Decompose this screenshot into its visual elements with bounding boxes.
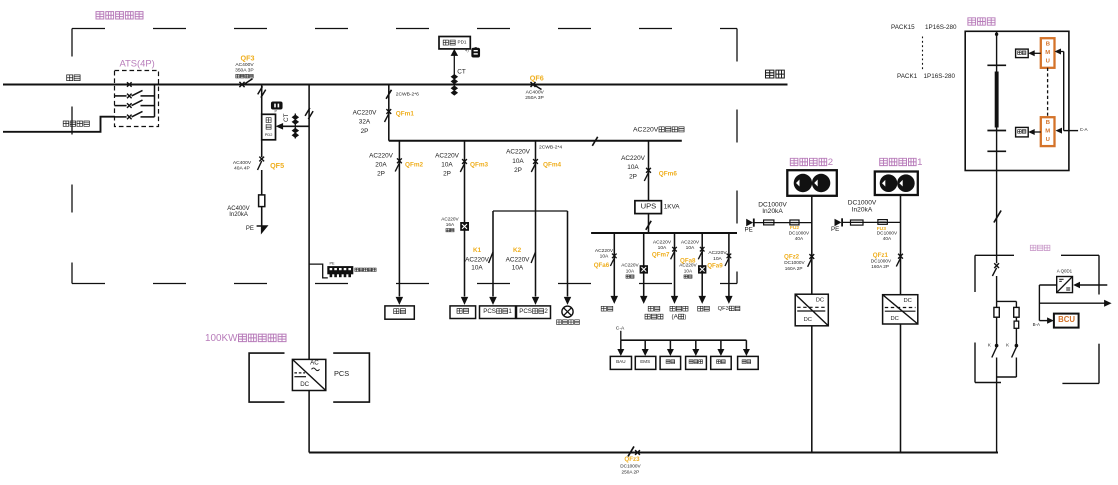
PCS enclosure bracket left (249, 353, 284, 402)
svg-text:10A: 10A (512, 158, 524, 165)
svg-text:QFm6: QFm6 (659, 170, 678, 177)
HV box dashed enclosure (975, 255, 1099, 383)
svg-text:PD2: PD2 (265, 132, 273, 137)
svg-text:AC220V: AC220V (633, 126, 659, 133)
meter PD2 box (262, 114, 276, 140)
HV fuse left (994, 301, 999, 344)
svg-text:10A: 10A (441, 162, 453, 169)
svg-text:BAU: BAU (616, 359, 625, 364)
PCS fan 2 box (517, 306, 551, 319)
svg-text:2CWB-2*6: 2CWB-2*6 (396, 91, 419, 97)
label QFm1 (396, 111, 415, 118)
ATS contact row 2 (115, 90, 155, 98)
wire DC bus bottom (309, 451, 998, 453)
wire UPS load5 QF3 motor (725, 233, 733, 304)
title 100KW PCS (chuneng bianliuqi) (205, 333, 286, 344)
svg-text:B: B (1046, 120, 1050, 126)
wire branch QFm2 (398, 141, 400, 297)
arrow into PCS fan1 (489, 297, 497, 305)
label load1 (594, 248, 614, 311)
svg-text:AC220V: AC220V (353, 110, 378, 117)
label city power (shidian) (67, 75, 80, 81)
fan box 2 (fengshan) (1016, 127, 1029, 136)
wire HV split header (997, 300, 1017, 302)
arrows C-A tree (617, 340, 750, 356)
cable mark slash battery (994, 211, 1001, 223)
svg-text:AC220V: AC220V (681, 239, 700, 245)
svg-text:2: 2 (544, 308, 548, 315)
socket on load2 (640, 266, 647, 273)
svg-text:DC1000V: DC1000V (784, 260, 805, 265)
svg-text:2P: 2P (443, 171, 451, 178)
label 1KVA (664, 203, 681, 210)
svg-text:PE: PE (330, 261, 336, 265)
wire comm out arrow right (1039, 300, 1111, 307)
svg-text:(A: (A (672, 314, 679, 321)
svg-text:C-A: C-A (1080, 127, 1089, 132)
wire main 400V bus to load (3, 83, 788, 85)
svg-text:K1: K1 (473, 247, 482, 254)
breaker QFm4 (531, 159, 538, 172)
fan box 1 (fengshan) (1016, 49, 1029, 58)
label QFm4 ratings (506, 149, 531, 174)
svg-text:U: U (1046, 137, 1050, 143)
svg-text:2P: 2P (514, 167, 522, 174)
svg-text:AC220V: AC220V (679, 263, 697, 268)
wire UPS output bus (591, 232, 737, 234)
svg-text:1: 1 (508, 308, 512, 315)
wire UPS load4 spare (698, 233, 706, 304)
wire CT to meter PD2 with arrow (276, 123, 310, 130)
svg-text:1: 1 (917, 157, 922, 168)
wire UPS load1 spare (610, 233, 618, 304)
label C-A battery (1080, 127, 1089, 132)
svg-text:K: K (988, 343, 991, 348)
svg-text:10A: 10A (512, 265, 524, 272)
BCU box (1054, 314, 1079, 328)
wire below meter PD2 (261, 140, 263, 157)
cable mark double slash on feeder (305, 108, 313, 119)
label C-A (616, 325, 625, 331)
cable mark slash on AC220V bus (592, 137, 597, 146)
ATS contact row 3 (115, 100, 155, 108)
BMU 1 box (1041, 38, 1055, 68)
wire CT to meter PD1 with arrow (451, 49, 459, 85)
wire branch QFm3 (464, 141, 466, 297)
dotted line between packs (922, 37, 924, 70)
svg-text:AC220V: AC220V (653, 239, 672, 245)
svg-text:40A: 40A (795, 236, 804, 241)
PV1 connector box (875, 172, 918, 196)
svg-text:10A: 10A (600, 254, 609, 260)
label PE (246, 226, 254, 232)
svg-text:10A: 10A (686, 245, 695, 251)
wire K1 drop (492, 211, 494, 297)
label K1 (465, 247, 490, 272)
title PV input 2 (guangfu jieru 2) (790, 157, 833, 168)
CT on main bus (451, 74, 459, 96)
arrow into PCS fan2 (532, 297, 539, 305)
meter PD1 side icon (465, 47, 479, 57)
svg-text:DC1000V: DC1000V (789, 230, 810, 235)
svg-text:PE: PE (831, 226, 839, 233)
svg-text:QFa6: QFa6 (594, 262, 610, 269)
svg-text:QF3: QF3 (241, 54, 255, 63)
svg-text:AC220V: AC220V (465, 257, 490, 264)
svg-text:AC220V: AC220V (621, 263, 639, 268)
svg-text:DC1000V: DC1000V (877, 231, 898, 236)
breaker QFm2 (395, 158, 402, 171)
svg-text:A Q0D1: A Q0D1 (1057, 269, 1073, 274)
svg-text:AC400V: AC400V (526, 89, 545, 95)
svg-text:2CWB-2*4: 2CWB-2*4 (539, 144, 562, 150)
breaker QF3 (239, 79, 252, 87)
svg-text:M: M (1045, 50, 1050, 56)
cable mark slash below UPS (646, 221, 651, 230)
label grounding terminal strip (355, 268, 376, 271)
transducer A/Q0D1 box (1057, 277, 1073, 293)
label QF5 ratings (233, 160, 252, 172)
switch K1 (489, 252, 493, 263)
svg-text:AC: AC (310, 360, 319, 367)
svg-text:): ) (684, 314, 686, 321)
switch QFz2 (808, 254, 815, 267)
label load4 (679, 239, 709, 311)
svg-text:K: K (1006, 343, 1009, 348)
breaker QF6 (531, 82, 542, 90)
meter icon small (272, 102, 283, 114)
svg-text:U: U (1046, 58, 1050, 64)
svg-text:In20kA: In20kA (229, 212, 248, 218)
svg-text:M: M (1045, 129, 1050, 135)
svg-text:QFm1: QFm1 (396, 111, 415, 118)
label QFm5 (659, 170, 678, 177)
HV fuse right (1014, 301, 1019, 344)
PCS fan 1 box (480, 306, 516, 319)
ATS output collector wire (154, 85, 156, 117)
grounding terminal strip (jiedi duanzipai) (328, 261, 353, 277)
svg-text:32A: 32A (359, 119, 371, 126)
battery cells symbol (987, 65, 1006, 151)
cabinet lamp (xiangnei zhaoming) (562, 306, 573, 317)
svg-text:AC220V: AC220V (441, 216, 459, 221)
arrow into lamp (564, 297, 571, 305)
label QFz3 (620, 456, 641, 475)
svg-text:EMS: EMS (640, 359, 650, 364)
svg-text:DC1000V: DC1000V (620, 463, 641, 468)
svg-text:QFa9: QFa9 (707, 263, 723, 270)
svg-text:10A: 10A (684, 268, 693, 273)
wire AC220V AC bus (389, 140, 682, 142)
battery string wire (995, 31, 998, 170)
svg-text:AC220V: AC220V (621, 155, 646, 162)
wire below UPS (648, 214, 650, 233)
label QFm5 ratings (621, 155, 646, 180)
wire lamp branch (567, 211, 569, 297)
label PV1 PE (831, 226, 839, 233)
svg-text:PCS: PCS (334, 369, 349, 378)
breaker QFm3 (460, 159, 467, 172)
wire branch QFm1 (388, 85, 390, 141)
label QF3 ratings (235, 62, 254, 78)
svg-text:10A: 10A (658, 245, 667, 251)
svg-text:1KVA: 1KVA (664, 203, 681, 210)
switch K2 (531, 252, 535, 263)
svg-text:40A: 40A (883, 236, 892, 241)
label QF6 ratings (525, 89, 544, 101)
title PV input 1 (guangfu jieru 1) (880, 157, 923, 168)
svg-text:PCS: PCS (483, 308, 496, 315)
wire PV2 drop (811, 196, 813, 294)
wire PCS to DC bus (308, 391, 310, 453)
svg-text:AC220V: AC220V (595, 248, 614, 254)
comm wire to BMUs (1055, 49, 1079, 134)
ground symbol PE (257, 226, 267, 232)
label lamp (557, 320, 580, 325)
battery stack box (965, 31, 1069, 170)
wire C-A tree (621, 331, 747, 340)
svg-text:BCU: BCU (1058, 315, 1075, 324)
wire PV1 drop (900, 195, 902, 295)
wire UPS load2 switch-free (640, 233, 648, 304)
label QFm2 ratings (369, 152, 394, 177)
label A/Q0D1 (1057, 269, 1073, 274)
svg-text:100KW: 100KW (205, 333, 238, 344)
svg-text:10A: 10A (713, 256, 722, 262)
svg-text:AC400V: AC400V (235, 62, 254, 68)
label SPD AC400V In20kA (227, 206, 249, 218)
svg-text:In20kA: In20kA (762, 208, 783, 215)
PCS AC/DC converter (292, 359, 325, 390)
svg-text:B-A: B-A (1033, 322, 1040, 327)
UPS box (635, 201, 662, 214)
svg-text:QF3: QF3 (718, 306, 729, 312)
dashed link BMU1-BMU2 (1047, 68, 1049, 117)
label QFm3 ratings (435, 152, 460, 177)
svg-text:AC220V: AC220V (435, 152, 460, 159)
label PCS (334, 369, 349, 378)
svg-text:DC1000V: DC1000V (871, 258, 892, 263)
label CT rotated (283, 113, 290, 122)
meter PD1 box (439, 37, 470, 49)
PV2 PE surge branch (746, 219, 812, 227)
svg-text:250A 3P: 250A 3P (525, 95, 544, 101)
contactor K left (988, 343, 998, 377)
switch QFz1 (896, 254, 903, 267)
svg-text:40A 4P: 40A 4P (234, 165, 250, 171)
wire K branch header (493, 210, 568, 212)
svg-text:QF6: QF6 (530, 73, 544, 82)
arrow BMU2 to fan2 (1028, 129, 1041, 135)
svg-text:AC220V: AC220V (369, 152, 394, 159)
svg-text:DC: DC (816, 298, 824, 304)
svg-text:CT: CT (457, 68, 466, 75)
ATS contact row 1 (mains) (127, 82, 155, 87)
label FU3 (877, 226, 898, 241)
label socket AC220V 16A (441, 216, 459, 232)
label 2CWB-2*4 (539, 144, 562, 150)
title battery stack (dianchidui) (968, 18, 995, 25)
svg-text:QFm3: QFm3 (470, 162, 489, 169)
svg-text:10A: 10A (627, 164, 639, 171)
svg-text:QFm4: QFm4 (543, 162, 562, 169)
wire A/Q0D1 to BCU (1039, 285, 1056, 324)
label QF3 (241, 54, 255, 63)
svg-text:CT: CT (283, 113, 290, 122)
svg-text:K2: K2 (513, 247, 522, 254)
svg-text:2P: 2P (377, 171, 385, 178)
label QFm4 (543, 162, 562, 169)
title HV box (gaoyaxiang) (1030, 245, 1050, 250)
svg-text:250A 2P: 250A 2P (622, 470, 640, 475)
label QFm2 (405, 162, 424, 169)
cable mark double slash (258, 86, 266, 97)
surge protector SPD AC400V (259, 195, 265, 226)
svg-text:QFm7: QFm7 (652, 251, 670, 258)
svg-text:PD1: PD1 (458, 39, 467, 44)
label load5 (707, 250, 740, 312)
title AC distribution cabinet (jiaoliu peidiangui) (96, 12, 143, 19)
svg-text:DC: DC (804, 317, 812, 323)
svg-text:AC220V: AC220V (506, 149, 531, 156)
svg-text:QFz3: QFz3 (624, 456, 640, 463)
wire branch QFm5 to UPS (648, 141, 650, 201)
socket on load4 (699, 266, 706, 273)
label load (fuzai) (766, 70, 785, 78)
wire main feeder to PCS (308, 85, 310, 360)
svg-text:160A 2P: 160A 2P (871, 264, 889, 269)
wire QF3 drop (261, 85, 263, 115)
HV main switch (992, 263, 999, 301)
svg-text:2P: 2P (361, 128, 369, 135)
svg-text:350A 3P: 350A 3P (235, 68, 254, 74)
breaker QFz3 (628, 446, 640, 456)
CT sense column near PD2 (292, 114, 300, 139)
contactor K right (1006, 343, 1018, 377)
svg-text:In20kA: In20kA (852, 206, 873, 213)
wire UPS load3 HV box A (671, 233, 679, 304)
svg-text:PE: PE (246, 226, 254, 232)
BMU 2 box (1041, 117, 1055, 146)
svg-text:UPS: UPS (641, 202, 657, 211)
wire diesel generator input (3, 117, 115, 132)
svg-text:16A: 16A (446, 222, 455, 227)
svg-text:20A: 20A (375, 162, 387, 169)
label QF6 (530, 73, 544, 82)
label QFz1 (871, 252, 892, 269)
label load2 (621, 263, 663, 319)
svg-text:10A: 10A (626, 268, 635, 273)
svg-text:PE: PE (745, 227, 753, 234)
svg-text:DC: DC (891, 316, 899, 322)
wire battery to HV box (996, 171, 998, 264)
breaker QFm5 (644, 168, 651, 181)
C-A device boxes BAU EMS etc (610, 356, 758, 369)
socket 16A (wukong) (461, 223, 469, 231)
wire HV rejoin (997, 377, 1017, 453)
PV2 DC/DC converter (795, 294, 828, 326)
label FU2 (789, 225, 810, 241)
svg-text:PACK15: PACK15 (891, 24, 915, 31)
spare box (beiyong) 1 (450, 306, 476, 319)
svg-text:ATS(4P): ATS(4P) (120, 57, 155, 68)
PCS enclosure bracket right (333, 353, 369, 402)
wire branch QFm4 (535, 141, 537, 297)
label PV1 SPD (848, 200, 877, 214)
PV1 PE surge branch (835, 218, 901, 226)
label load3 (652, 239, 688, 320)
svg-text:PACK1: PACK1 (897, 73, 918, 80)
arrow into spare box (461, 297, 468, 305)
svg-text:AC400V: AC400V (233, 160, 252, 166)
svg-text:C-A: C-A (616, 325, 625, 331)
label QFm3 (470, 162, 489, 169)
svg-text:AC220V: AC220V (506, 257, 531, 264)
label PACK15 (891, 24, 957, 31)
svg-text:2P: 2P (629, 173, 637, 180)
PV2 connector box (787, 170, 837, 196)
breaker QFm1 (385, 109, 392, 122)
wire PV2 to DC bus (811, 326, 813, 453)
label B-A (1033, 322, 1040, 327)
svg-text:160A 2P: 160A 2P (785, 266, 803, 271)
air conditioner box (kongtiao) (385, 306, 414, 319)
wire into A/Q0D1 with arrow (1073, 282, 1107, 288)
arrow BMU1 to fan1 (1028, 50, 1041, 56)
svg-text:B: B (1046, 41, 1050, 47)
PV1 DC/DC converter (883, 295, 918, 324)
svg-text:DC: DC (300, 381, 309, 388)
wire PV1 to DC bus (900, 324, 902, 453)
cable mark 2CWB-2*6 (386, 90, 419, 99)
label PV2 PE (745, 227, 753, 234)
label diesel generation (chaiyou fadian) (63, 121, 89, 126)
svg-text:QF5: QF5 (270, 161, 284, 170)
svg-text:10A: 10A (471, 265, 483, 272)
label PACK1 (897, 73, 956, 80)
label K2 (506, 247, 531, 272)
ATS contact row 4 (diesel) (115, 111, 155, 119)
ATS(4P) dashed box (115, 71, 159, 127)
label ATS(4P) (120, 57, 155, 68)
svg-text:AC220V: AC220V (708, 250, 727, 256)
breaker QF5 (258, 157, 265, 195)
svg-text:DC: DC (904, 298, 912, 304)
svg-text:PCS: PCS (519, 308, 532, 315)
svg-text:2: 2 (828, 157, 833, 168)
svg-text:1P16S-280: 1P16S-280 (924, 73, 956, 80)
label QFz2 (784, 254, 805, 271)
label QF5 (270, 161, 284, 170)
svg-text:QFm2: QFm2 (405, 162, 424, 169)
label AC220V AC bus (633, 126, 684, 133)
label QFm1 ratings (353, 110, 378, 135)
label CT (457, 68, 466, 75)
label PV2 SPD (758, 202, 787, 216)
arrow into air conditioner (396, 297, 404, 305)
AC distribution cabinet dashed enclosure (72, 29, 737, 284)
wire to grounding terminal strip (309, 264, 328, 278)
svg-text:1P16S-280: 1P16S-280 (925, 24, 957, 31)
